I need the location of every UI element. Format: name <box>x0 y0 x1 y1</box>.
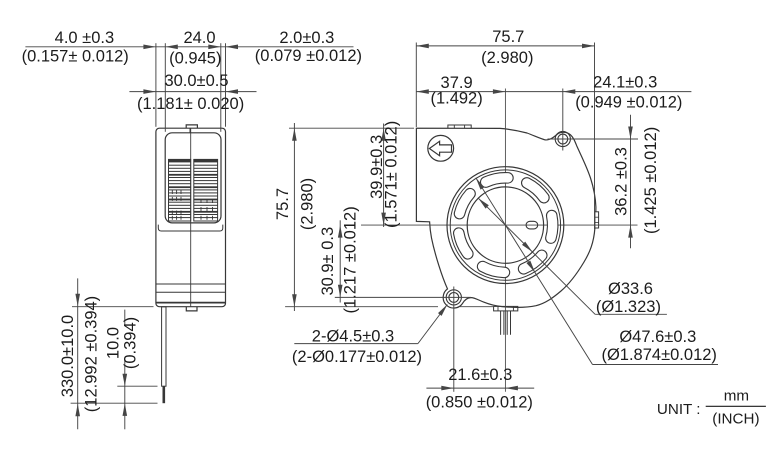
svg-text:21.6±0.3: 21.6±0.3 <box>448 366 512 384</box>
svg-text:(2.980): (2.980) <box>298 178 316 230</box>
svg-text:4.0 ±0.3: 4.0 ±0.3 <box>55 29 115 47</box>
svg-text:(0.079 ±0.012): (0.079 ±0.012) <box>255 47 362 65</box>
svg-text:75.7: 75.7 <box>274 188 292 220</box>
svg-text:Ø47.6±0.3: Ø47.6±0.3 <box>619 328 696 346</box>
svg-text:36.2 ±0.3: 36.2 ±0.3 <box>613 147 631 216</box>
svg-text:UNIT :: UNIT : <box>657 401 701 418</box>
svg-text:30.9± 0.3: 30.9± 0.3 <box>319 227 337 296</box>
svg-text:(12.992 ±0.394): (12.992 ±0.394) <box>83 296 101 412</box>
svg-text:330.0±10.0: 330.0±10.0 <box>59 315 77 397</box>
svg-text:(0.949 ±0.012): (0.949 ±0.012) <box>575 93 682 111</box>
svg-text:(0.850 ±0.012): (0.850 ±0.012) <box>426 394 533 412</box>
svg-text:(0.394): (0.394) <box>121 317 139 369</box>
svg-text:Ø33.6: Ø33.6 <box>608 280 653 298</box>
svg-text:(1.217 ±0.012): (1.217 ±0.012) <box>342 206 360 313</box>
svg-text:2-Ø4.5±0.3: 2-Ø4.5±0.3 <box>312 327 394 345</box>
svg-text:24.1±0.3: 24.1±0.3 <box>593 73 657 91</box>
svg-text:(1.571± 0.012): (1.571± 0.012) <box>383 121 401 228</box>
svg-text:(Ø1.323): (Ø1.323) <box>596 298 661 316</box>
svg-text:10.0: 10.0 <box>105 327 123 359</box>
svg-text:24.0: 24.0 <box>183 29 215 47</box>
svg-text:(0.157± 0.012): (0.157± 0.012) <box>22 48 129 66</box>
svg-text:(0.945): (0.945) <box>169 49 221 67</box>
svg-text:2.0±0.3: 2.0±0.3 <box>279 29 334 47</box>
svg-text:30.0±0.5: 30.0±0.5 <box>164 72 228 90</box>
svg-text:75.7: 75.7 <box>492 28 524 46</box>
svg-text:(INCH): (INCH) <box>712 411 759 428</box>
svg-text:mm: mm <box>724 388 749 405</box>
svg-text:(1.492): (1.492) <box>430 90 482 108</box>
svg-text:(2.980): (2.980) <box>481 49 533 67</box>
svg-text:(1.425 ±0.012): (1.425 ±0.012) <box>642 127 660 234</box>
svg-text:(1.181± 0.020): (1.181± 0.020) <box>137 95 244 113</box>
svg-text:(Ø1.874±0.012): (Ø1.874±0.012) <box>601 346 716 364</box>
svg-text:(2-Ø0.177±0.012): (2-Ø0.177±0.012) <box>292 348 422 366</box>
